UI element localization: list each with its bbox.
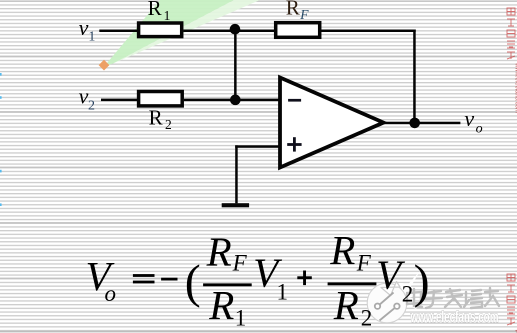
svg-text:F: F	[299, 7, 309, 22]
formula minus sign	[161, 278, 177, 281]
blue edge speck 1b	[0, 96, 2, 99]
orange diamond marker	[99, 60, 110, 71]
svg-text:R: R	[333, 282, 359, 328]
label R1	[148, 0, 171, 23]
blue edge speck 2	[0, 170, 2, 173]
output node junction dot	[409, 118, 420, 129]
wire R2 to node B	[184, 99, 236, 102]
svg-text:R: R	[148, 0, 162, 20]
wire node B to op-amp inverting input	[235, 99, 280, 102]
svg-text:R: R	[206, 229, 232, 275]
svg-text:R: R	[329, 227, 355, 273]
wire R1 to node A	[183, 30, 235, 33]
op-amp minus sign	[288, 99, 301, 102]
watermark logo small circle left	[375, 304, 380, 309]
svg-text:2: 2	[88, 98, 95, 113]
op-amp U1 triangle	[280, 78, 384, 168]
label RF	[286, 0, 310, 22]
op-amp plus sign	[287, 137, 301, 151]
blue edge speck 3	[0, 203, 2, 206]
wire v1 to R1	[99, 30, 138, 33]
svg-text:V: V	[376, 251, 405, 297]
feedback wire RF to corner	[320, 30, 416, 33]
wire v2 to R2	[101, 99, 138, 102]
svg-text:www.elecfans.com: www.elecfans.com	[514, 62, 517, 113]
watermark white burst	[370, 271, 432, 312]
wire node A down to node B	[234, 30, 237, 100]
wire node A to RF	[235, 30, 274, 33]
wire op-amp noninverting input to ground stem	[235, 145, 280, 148]
watermark logo link lines	[378, 293, 397, 321]
svg-text:R: R	[208, 282, 234, 328]
svg-text:R: R	[149, 106, 163, 130]
watermark logo small circle right	[394, 304, 399, 309]
svg-text:(: (	[185, 255, 201, 308]
svg-text:R: R	[286, 0, 300, 19]
watermark chinese chars dian zi fa shao you	[407, 288, 499, 308]
svg-text:F: F	[232, 250, 248, 275]
ground stem wire	[235, 145, 238, 203]
svg-text:F: F	[356, 251, 372, 276]
svg-text:2: 2	[361, 305, 373, 330]
svg-text:o: o	[105, 281, 117, 306]
green highlighter swoosh	[104, 0, 260, 67]
node v1 label	[79, 15, 96, 45]
svg-text:1: 1	[235, 305, 247, 330]
svg-text:2: 2	[402, 281, 414, 306]
svg-text:o: o	[476, 122, 483, 137]
watermark logo beak notch	[381, 282, 400, 296]
formula equals sign	[133, 274, 155, 283]
formula fraction1 bar	[203, 283, 252, 286]
node vo label	[464, 106, 482, 137]
resistor R2	[139, 92, 183, 106]
resistor RF	[276, 23, 320, 38]
blue edge speck 1	[0, 73, 2, 76]
svg-text:): )	[414, 255, 430, 308]
right edge red watermark bottom chars	[507, 274, 515, 325]
svg-text:1: 1	[164, 8, 171, 23]
svg-text:www.elecfans.com: www.elecfans.com	[410, 309, 499, 326]
watermark logo circle	[367, 283, 407, 323]
feedback wire corner down to output node	[413, 30, 416, 123]
svg-text:1: 1	[88, 30, 95, 45]
svg-text:v: v	[79, 15, 89, 40]
right edge red watermark top chars	[507, 8, 515, 59]
node A junction dot	[230, 24, 241, 35]
node B junction dot	[230, 95, 241, 106]
formula fraction2 bar	[328, 282, 377, 285]
svg-text:v: v	[464, 106, 474, 131]
svg-text:2: 2	[165, 117, 172, 132]
svg-text:www.e: www.e	[514, 328, 517, 333]
formula plus sign	[297, 271, 312, 286]
node v2 label	[79, 83, 95, 113]
ground bar	[222, 203, 249, 207]
label R2	[149, 106, 172, 133]
svg-text:1: 1	[277, 280, 289, 305]
resistor R1	[139, 23, 182, 37]
output wire op-amp to vo	[383, 122, 460, 125]
